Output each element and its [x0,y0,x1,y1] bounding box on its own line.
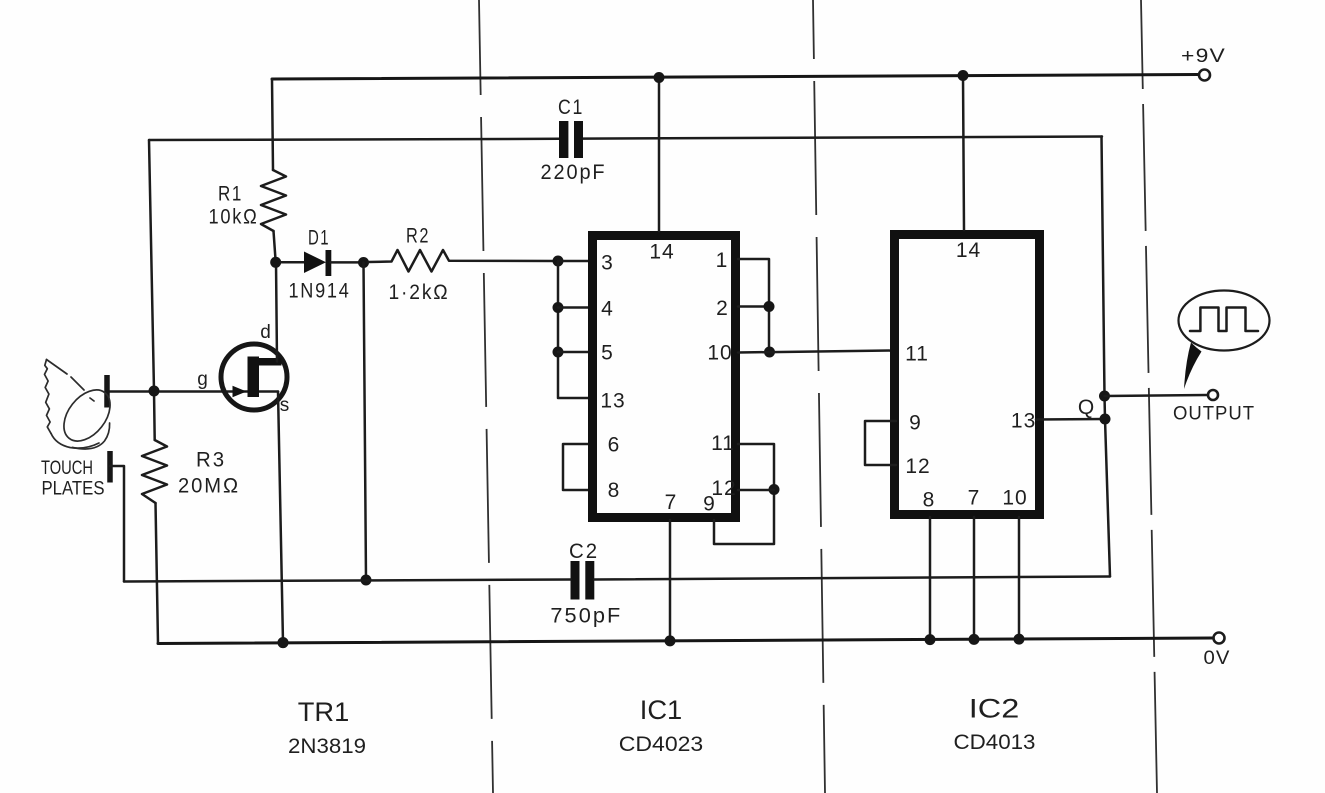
wire pin13 Q output [1036,418,1105,421]
svg-text:10kΩ: 10kΩ [209,206,259,229]
svg-text:PLATES: PLATES [42,479,105,500]
wire pin10 to IC2 pin11 [738,351,894,353]
svg-text:20MΩ: 20MΩ [178,474,240,497]
JFET gate arrowhead [233,386,247,397]
svg-text:R3: R3 [196,449,226,472]
node pin8 on 0V [925,634,936,645]
node on pin10 wire [764,347,775,358]
svg-text:5: 5 [601,342,614,365]
node on C2 line [361,575,372,586]
wire D1 node down to C2 line [364,263,367,581]
wire IC2 pin10 to 0V [1018,517,1021,639]
wire pin7 to 0V [669,520,672,641]
waveform square wave [1190,308,1258,332]
node gate dot [149,386,160,397]
svg-text:4: 4 [601,298,614,321]
svg-text:3: 3 [601,252,614,275]
wire R1 top [272,79,273,170]
wire lower plate to C2 line [110,466,124,582]
svg-text:8: 8 [923,489,936,512]
resistor R3 [142,440,167,503]
wire output [1105,395,1208,396]
wire pins 9-12 bracket (IC2) [865,421,896,465]
wire pin2 stub [738,305,769,308]
svg-text:14: 14 [956,239,981,262]
svg-text:11: 11 [711,432,735,455]
svg-text:1: 1 [716,249,729,272]
svg-text:d: d [260,322,272,343]
svg-text:1·2kΩ: 1·2kΩ [389,281,450,304]
touch plate lower [107,451,113,483]
svg-text:7: 7 [665,491,678,514]
svg-text:8: 8 [608,479,621,502]
+9V rail [272,75,1198,80]
wire IC2 pin8 to 0V [929,517,932,640]
wire pin3 stub [558,260,592,263]
balloon tail [1184,343,1202,390]
svg-text:10: 10 [1002,486,1027,509]
svg-text:9: 9 [703,493,716,516]
svg-text:IC2: IC2 [969,694,1020,724]
diode D1 [304,252,326,274]
wire pins 1-2 bracket [738,259,769,352]
section divider dashed line 1 [479,0,493,793]
node pin14 on rail [654,72,665,83]
wire R3 bottom to 0V [156,503,159,644]
touch plate upper [104,375,110,408]
svg-text:D1: D1 [308,227,330,250]
wire C1 feedback line top [149,139,559,140]
wire gate horizontal [109,390,278,393]
svg-text:Q: Q [1078,396,1095,419]
hand sketch fingertip [55,381,120,449]
svg-text:13: 13 [600,390,625,413]
svg-text:13: 13 [1011,409,1036,432]
node pin2 [764,301,775,312]
svg-text:TR1: TR1 [298,697,350,727]
svg-text:OUTPUT: OUTPUT [1173,404,1255,425]
svg-text:R1: R1 [218,183,243,206]
svg-text:9: 9 [909,412,922,435]
0V terminal [1214,633,1225,644]
svg-text:2: 2 [716,297,729,320]
wire pin12 stub [738,489,774,492]
svg-text:10: 10 [707,342,732,365]
JFET drain stub [252,358,282,366]
JFET channel bar [248,357,260,398]
wire pins 11-12 bracket [714,444,774,544]
wire source vertical [278,392,283,643]
wire pins 6-8 bracket [563,444,590,490]
wire IC2 pin14 to +9V [963,76,964,231]
svg-text:TOUCH: TOUCH [41,458,93,479]
wire feedback vertical right [1102,137,1111,577]
node pin10 on 0V [1014,634,1025,645]
resistor R2 [369,250,559,272]
wire pin5 stub [558,351,592,354]
node IC2 pin14 on rail [958,70,969,81]
+9V terminal [1199,70,1210,81]
waveform balloon [1179,291,1270,351]
node D1/R2 [358,257,369,268]
capacitor C2 [571,561,580,600]
IC1 CD4023 box [593,236,736,518]
transistor TR1 JFET circle [221,344,287,410]
svg-text:7: 7 [968,486,981,509]
svg-text:220pF: 220pF [541,161,607,184]
svg-text:12: 12 [905,455,930,478]
svg-text:g: g [197,369,209,390]
svg-text:C2: C2 [569,540,599,563]
node pin7 on 0V [969,634,980,645]
svg-text:CD4023: CD4023 [619,733,704,756]
svg-text:CD4013: CD4013 [954,731,1036,754]
wire D1 anode [281,261,305,264]
node pin4 [553,302,564,313]
node pin12 [769,484,780,495]
IC2 CD4013 box [895,235,1040,515]
wire pin4 stub [558,306,592,309]
node source on 0V [278,637,289,648]
section divider dashed line 2 [813,0,825,793]
svg-text:6: 6 [608,434,621,457]
capacitor C1 [559,121,568,158]
wire left vertical (gate column) [149,140,155,440]
hand sketch finger outline [47,360,95,402]
svg-text:+9V: +9V [1181,46,1226,67]
section divider dashed line 3 [1141,0,1157,793]
svg-text:2N3819: 2N3819 [288,735,366,758]
node pin7 on 0V [665,635,676,646]
svg-text:1N914: 1N914 [289,280,351,303]
svg-text:14: 14 [649,241,674,264]
node R1/D1 [270,257,281,268]
svg-text:s: s [280,395,291,416]
wire C2 line [124,580,571,582]
wire IC2 pin7 to 0V [973,517,976,639]
output terminal [1208,390,1218,400]
wire IC1 pin14 to +9V [658,78,661,232]
node IC1 pin3 [553,256,564,267]
0V rail [158,638,1212,644]
wire drain vertical [276,262,277,361]
node pin5 [553,347,564,358]
wire R1 bottom to node [274,231,276,262]
node Q junction [1100,414,1111,425]
svg-text:750pF: 750pF [550,604,622,627]
wire 3-4-5-13 vertical [558,261,592,398]
svg-text:0V: 0V [1204,648,1231,669]
node source on 0V [278,637,289,648]
svg-text:C1: C1 [558,96,584,119]
resistor R1 [261,170,286,231]
svg-text:11: 11 [905,343,929,366]
svg-text:IC1: IC1 [640,695,683,725]
node output junction [1099,391,1110,402]
svg-text:R2: R2 [406,225,430,248]
